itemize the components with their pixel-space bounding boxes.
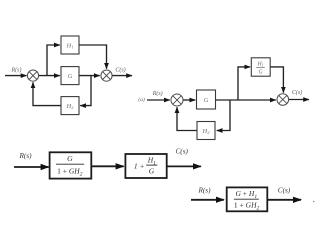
svg-text:C(s): C(s) <box>278 186 291 194</box>
svg-text:H1: H1 <box>256 61 263 67</box>
svg-text:G: G <box>68 73 73 80</box>
svg-text:G: G <box>67 154 73 163</box>
svg-text:C(s): C(s) <box>115 66 125 73</box>
svg-text:R(s): R(s) <box>11 66 22 73</box>
svg-text:R(s): R(s) <box>19 152 33 160</box>
svg-text:1 + GH2: 1 + GH2 <box>234 201 260 212</box>
svg-text:G: G <box>204 97 209 104</box>
svg-text:C(s): C(s) <box>292 89 302 96</box>
svg-text:(a): (a) <box>138 96 145 103</box>
svg-text:C(s): C(s) <box>176 147 189 155</box>
svg-text:1 + GH2: 1 + GH2 <box>57 166 83 177</box>
svg-text:R(s): R(s) <box>198 186 212 194</box>
svg-text:G + H1: G + H1 <box>236 189 258 200</box>
svg-text:1 +: 1 + <box>134 162 145 171</box>
svg-text:R(s): R(s) <box>152 90 163 97</box>
svg-text:G: G <box>149 166 155 175</box>
